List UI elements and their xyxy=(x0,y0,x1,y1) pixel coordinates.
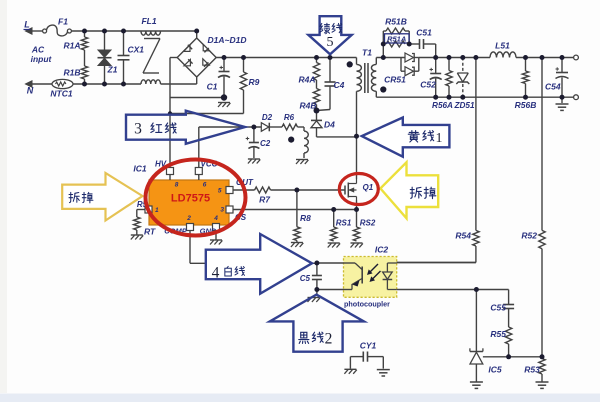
LED (IC2) xyxy=(383,263,397,290)
arrow remove-left xyxy=(62,173,142,221)
wire IC2 right top xyxy=(397,262,476,264)
wire top AC rail xyxy=(71,30,196,32)
svg-text:IC1: IC1 xyxy=(133,164,147,174)
svg-text:R9: R9 xyxy=(249,77,260,87)
svg-text:2: 2 xyxy=(325,331,333,348)
wire VCC node xyxy=(199,127,261,176)
wire CS line xyxy=(233,209,357,211)
svg-text:Q1: Q1 xyxy=(363,183,374,192)
svg-text:2: 2 xyxy=(186,215,191,222)
wire snubber to drain xyxy=(317,136,357,138)
ground (CY1 left) xyxy=(344,369,356,374)
wire DC+ rail xyxy=(216,57,356,59)
capacitor C51 xyxy=(409,28,436,58)
svg-text:8: 8 xyxy=(175,182,179,189)
capacitor C4 xyxy=(317,58,345,111)
svg-text:C52: C52 xyxy=(420,80,436,90)
IC U1 LD7575 body xyxy=(149,180,229,225)
svg-text:RS1: RS1 xyxy=(336,219,352,228)
svg-text:IC5: IC5 xyxy=(488,365,502,375)
svg-text:R56B: R56B xyxy=(515,100,537,110)
wire R52 column xyxy=(541,58,543,231)
terminal V+ out xyxy=(574,55,579,60)
ground (GND pin) xyxy=(210,240,222,245)
resistor R51A xyxy=(385,34,410,47)
svg-text:L51: L51 xyxy=(495,41,510,51)
svg-text:R55: R55 xyxy=(490,329,506,339)
page background strip xyxy=(0,394,600,403)
resistor R56B xyxy=(515,58,537,111)
svg-text:4: 4 xyxy=(212,265,220,282)
light arrows (IC2) xyxy=(368,264,381,281)
resistor R53 xyxy=(524,359,545,382)
pin 1 xyxy=(145,206,217,236)
arrow black-wire 2 xyxy=(270,295,364,352)
svg-text:5: 5 xyxy=(218,188,222,195)
ground (R53) xyxy=(536,382,549,388)
capacitor C5 xyxy=(300,263,322,290)
capacitor C52 xyxy=(420,58,441,98)
svg-text:LD7575: LD7575 xyxy=(171,193,210,205)
ground (RT) xyxy=(131,235,143,240)
aux winding of T1 xyxy=(298,127,309,158)
optocoupler IC2 box xyxy=(344,245,397,298)
resistor R56A xyxy=(432,58,453,111)
wire rail after L51 xyxy=(516,57,576,59)
wire source xyxy=(356,200,358,210)
svg-text:C55: C55 xyxy=(490,303,506,313)
pin 4 CS xyxy=(213,213,247,231)
resistor RT xyxy=(134,217,156,237)
resistor RS1 xyxy=(331,210,352,242)
diode CR51b xyxy=(384,58,419,85)
svg-text:1: 1 xyxy=(436,131,443,146)
ground (RS1) xyxy=(328,243,340,248)
label IC1 xyxy=(133,164,147,174)
capacitor C54 xyxy=(545,58,568,104)
svg-text:1: 1 xyxy=(155,207,159,214)
arrow remove-right xyxy=(380,162,438,218)
resistor R51B xyxy=(383,17,409,45)
capacitor C1 xyxy=(207,58,230,98)
wire bridge minus path xyxy=(170,58,224,98)
svg-text:CX1: CX1 xyxy=(128,45,145,55)
svg-text:photocoupler: photocoupler xyxy=(344,300,390,309)
svg-text:FL1: FL1 xyxy=(141,16,156,26)
ground (C5) xyxy=(308,290,320,303)
svg-text:R7: R7 xyxy=(259,195,271,205)
varistor Z1 xyxy=(98,31,118,84)
resistor R52 xyxy=(521,230,545,356)
ground (CY1 right) xyxy=(377,370,390,376)
svg-text:input: input xyxy=(31,54,53,64)
resistor R55 xyxy=(490,327,511,357)
wire pin1 to RT xyxy=(137,210,145,218)
svg-text:L: L xyxy=(24,20,30,30)
resistor RS2 xyxy=(353,210,376,242)
ground (IC5) xyxy=(470,382,483,388)
node N (neutral input) xyxy=(26,81,34,96)
resistor R1A xyxy=(63,31,87,51)
resistor R9 xyxy=(240,58,259,91)
wire COMP line xyxy=(190,231,317,264)
node L (line input) xyxy=(24,20,44,35)
resistor R54 xyxy=(397,230,479,262)
resistor R4A xyxy=(298,58,319,85)
pin 5 OUT xyxy=(218,178,254,195)
wire HV line xyxy=(169,98,171,170)
svg-text:5: 5 xyxy=(327,35,334,50)
svg-text:C51: C51 xyxy=(416,28,432,38)
highlight circle IC1 xyxy=(146,160,246,236)
inductor FL1 xyxy=(141,16,161,84)
svg-text:C1: C1 xyxy=(207,82,218,92)
ground (aux winding) xyxy=(296,160,308,165)
ground (R8) xyxy=(291,243,303,248)
terminal V- out xyxy=(574,95,579,100)
capacitor C2 xyxy=(246,127,271,158)
resistor R1B xyxy=(63,50,87,84)
svg-text:D2: D2 xyxy=(262,113,273,122)
svg-text:T1: T1 xyxy=(362,48,372,58)
svg-text:R1B: R1B xyxy=(63,68,80,78)
ground (C2) xyxy=(248,159,260,164)
highlight circle Q1 xyxy=(339,174,378,205)
wire secondary top xyxy=(376,58,405,72)
node primary phase dot xyxy=(347,61,353,67)
svg-text:4: 4 xyxy=(213,215,218,222)
thermistor NTC1 xyxy=(50,79,73,98)
svg-text:ZD51: ZD51 xyxy=(453,101,474,110)
svg-text:R4A: R4A xyxy=(298,75,315,85)
ground (C1) xyxy=(218,103,230,108)
svg-text:R56A: R56A xyxy=(432,101,453,110)
svg-text:RT: RT xyxy=(144,227,156,237)
shunt regulator IC5 xyxy=(470,290,502,382)
svg-text:D4: D4 xyxy=(324,120,335,130)
diode D4 xyxy=(311,111,335,137)
pin 3 xyxy=(220,206,233,214)
resistor R6 xyxy=(282,113,298,130)
pin 8 HV xyxy=(155,160,179,189)
svg-text:R6: R6 xyxy=(284,113,295,122)
capacitor CX1 xyxy=(118,31,145,84)
wire AC to bridge bottom xyxy=(161,78,197,85)
svg-text:3: 3 xyxy=(220,207,224,214)
arrow green-wire 5 xyxy=(308,16,351,54)
label R5 xyxy=(137,200,148,209)
svg-text:R8: R8 xyxy=(300,213,311,223)
wire snubber left xyxy=(382,44,384,58)
ground (C54) xyxy=(556,104,569,110)
svg-text:NTC1: NTC1 xyxy=(50,89,72,99)
svg-text:N: N xyxy=(27,86,34,96)
wire gate xyxy=(297,189,345,191)
svg-text:R51B: R51B xyxy=(385,17,407,27)
label photocoupler xyxy=(344,300,390,309)
svg-text:R1A: R1A xyxy=(63,41,80,51)
svg-text:RS2: RS2 xyxy=(360,219,376,228)
capacitor CY1 xyxy=(350,341,383,369)
svg-text:CR51: CR51 xyxy=(384,75,406,85)
wire R9 to HV xyxy=(170,90,244,114)
resistor R7 xyxy=(233,187,297,205)
svg-text:R53: R53 xyxy=(524,365,540,375)
svg-text:C4: C4 xyxy=(334,80,345,90)
ground (RS2) xyxy=(351,243,363,248)
arrow red-wire 3 xyxy=(126,111,245,144)
zener ZD51 xyxy=(453,58,474,111)
pin 6 VCC xyxy=(195,160,217,189)
capacitor C55 xyxy=(490,290,514,328)
fuse F1 xyxy=(43,17,72,36)
diode D2 xyxy=(261,113,282,131)
arrow white-wire 4 xyxy=(206,234,312,294)
svg-text:D1A~D1D: D1A~D1D xyxy=(208,35,247,45)
svg-text:R51A: R51A xyxy=(387,34,406,43)
svg-text:6: 6 xyxy=(203,182,207,189)
wire bottom AC rail xyxy=(32,83,141,85)
wire pin4 to ground xyxy=(215,231,217,240)
node secondary phase dot xyxy=(380,86,386,92)
node aux phase dot xyxy=(288,137,294,143)
wire ref line xyxy=(483,356,542,358)
svg-text:R54: R54 xyxy=(455,231,471,241)
resistor R4B xyxy=(299,80,319,111)
diode CR51a xyxy=(405,53,419,62)
label AC input xyxy=(31,45,53,65)
transistor Q1 xyxy=(345,179,374,200)
arrow yellow-wire 1 xyxy=(362,118,450,157)
svg-text:CY1: CY1 xyxy=(360,341,377,351)
svg-text:3: 3 xyxy=(134,121,142,138)
phototransistor (IC2) xyxy=(317,263,362,290)
svg-text:AC: AC xyxy=(31,45,45,55)
transformer T1 xyxy=(357,48,377,137)
svg-text:C2: C2 xyxy=(260,139,271,148)
svg-text:Z1: Z1 xyxy=(107,65,118,75)
inductor L51 xyxy=(490,41,516,58)
wire IC2 right bottom xyxy=(397,289,509,291)
wire R54 tap xyxy=(475,58,477,231)
svg-text:C5: C5 xyxy=(300,274,311,283)
wire drain xyxy=(356,136,358,179)
resistor R8 xyxy=(294,190,311,242)
wire secondary rail xyxy=(419,57,490,59)
wire secondary bottom rail xyxy=(376,96,575,98)
svg-text:IC2: IC2 xyxy=(375,245,389,255)
bridge rectifier D1A~D1D xyxy=(177,31,246,77)
pin 2 COMP xyxy=(164,215,193,236)
svg-text:F1: F1 xyxy=(58,17,68,27)
svg-text:R52: R52 xyxy=(521,231,537,241)
svg-text:C54: C54 xyxy=(545,82,561,92)
